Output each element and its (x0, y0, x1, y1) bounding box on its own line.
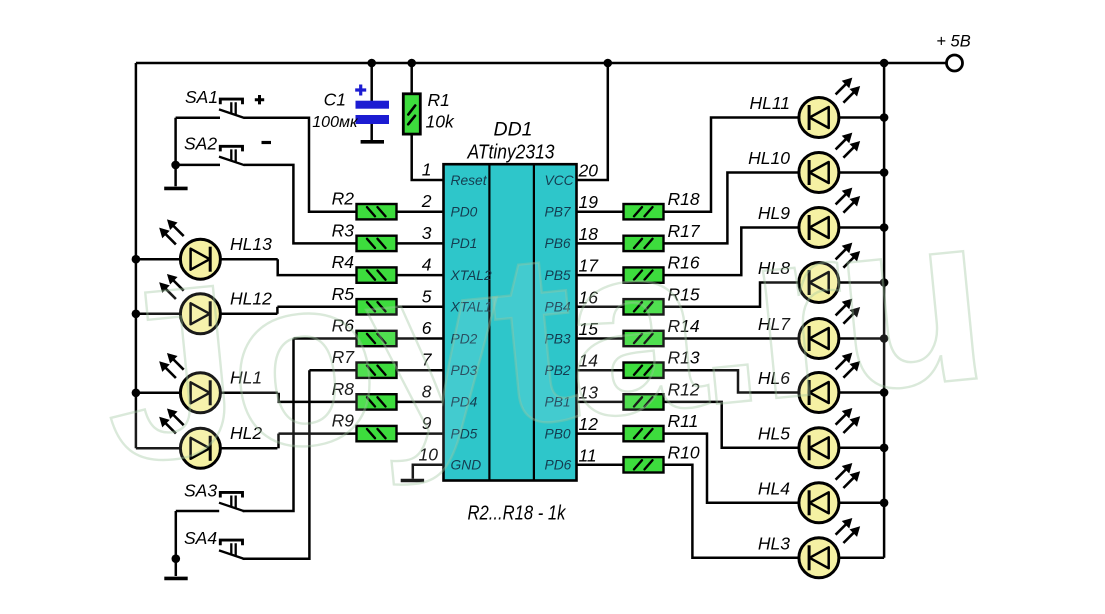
push button SA4 (219, 540, 245, 559)
wire SA1 left (176, 116, 220, 119)
svg-text:Joyta.ru: Joyta.ru (90, 160, 997, 515)
wire SA3 left (176, 510, 219, 513)
+5V terminal (947, 55, 963, 71)
wire HL12 to R5 (276, 307, 279, 314)
junction left rail (132, 310, 141, 319)
wire SA3 to R6 row (243, 339, 294, 512)
wire pin 11 stub (577, 464, 624, 467)
wire pin 15 stub (577, 337, 624, 340)
wire R1 to pin1 (412, 134, 444, 180)
wire rail to HL13 (136, 258, 181, 261)
wire pin 16 stub (577, 306, 624, 309)
junction left rail (132, 389, 141, 398)
resistor R1 (403, 94, 420, 134)
svg-text:1: 1 (422, 160, 432, 180)
junction left rail (132, 255, 141, 264)
svg-text:HL10: HL10 (748, 148, 790, 168)
resistor R15 (624, 299, 664, 314)
wire SA1-SA2 ground stem (174, 118, 177, 187)
wire HL3 to rail (839, 557, 884, 560)
svg-text:HL11: HL11 (749, 93, 790, 113)
wire R5 left (277, 306, 356, 309)
wire right +5V rail (883, 63, 886, 558)
wire HL5 to rail (839, 447, 884, 450)
junction SA2/ground stem (171, 161, 180, 170)
junction rail HL9 (880, 223, 889, 232)
resistor R6 (357, 331, 397, 346)
wire R1 top (410, 63, 413, 94)
resistor R10 (624, 457, 664, 472)
wire HL12 cathode (220, 313, 277, 316)
wire HL10 to rail (839, 171, 884, 174)
wire to HL9 (663, 228, 799, 276)
LED HL1 (160, 354, 221, 413)
wire pin 14 stub (577, 369, 624, 372)
wire SA2 to R3 (244, 165, 357, 244)
wire pin 19 stub (577, 210, 624, 213)
junction pin20/top (604, 59, 613, 68)
resistor R2 (357, 204, 397, 219)
wire HL6 to rail (839, 391, 884, 394)
LED HL10 (799, 133, 860, 192)
junction rail HL4 (880, 499, 889, 508)
wire rail to HL12 (136, 313, 181, 316)
resistor R5 (357, 299, 397, 314)
wire to HL4 (663, 434, 799, 503)
resistor R17 (624, 236, 664, 251)
svg-text:C1: C1 (324, 90, 346, 110)
wire to HL10 (663, 173, 799, 244)
LED HL2 (160, 409, 221, 468)
resistor R18 (624, 204, 664, 219)
LED HL8 (799, 243, 860, 302)
junction C1/top (367, 59, 376, 68)
wire SA3-SA4 ground stem (175, 511, 178, 576)
wire SA1 to R2 (244, 118, 357, 212)
junction rail HL11 (880, 113, 889, 122)
svg-text:SA1: SA1 (185, 87, 218, 107)
resistor R12 (624, 394, 664, 409)
wire HL4 to rail (839, 502, 884, 505)
wire HL13 cathode (220, 258, 277, 261)
wire R5 to pin 5 (397, 306, 444, 309)
LED HL4 (799, 464, 860, 523)
wire C1 top (370, 63, 373, 101)
wire pin 18 stub (577, 242, 624, 245)
junction right rail/top (880, 59, 889, 68)
wire R8 to pin 8 (397, 401, 444, 404)
wire R7 left (309, 369, 356, 372)
wire HL8 to rail (839, 281, 884, 284)
wire R9 left (279, 432, 357, 435)
wire pin 13 stub (577, 401, 624, 404)
resistor R11 (624, 426, 664, 441)
plus sign SA1 (255, 95, 264, 104)
resistor R3 (357, 236, 397, 251)
wire to HL6 (663, 370, 799, 392)
svg-text:SA4: SA4 (184, 528, 217, 548)
wire HL2 cathode (220, 447, 277, 450)
wire to HL11 (663, 118, 799, 212)
junction rail HL6 (880, 388, 889, 397)
push button SA2 (219, 146, 245, 165)
wire HL11 to rail (839, 116, 884, 119)
LED HL9 (799, 188, 860, 247)
junction SA4/ground stem (172, 554, 181, 563)
wire HL9 to rail (839, 226, 884, 229)
wire to HL8 (663, 283, 799, 307)
svg-text:R2...R18 - 1k: R2...R18 - 1k (468, 502, 567, 525)
svg-text:2: 2 (421, 191, 432, 211)
svg-text:R1: R1 (428, 90, 450, 110)
wire R7 to pin 7 (397, 369, 444, 372)
LED HL11 (799, 78, 860, 137)
wire R3 to pin 3 (397, 242, 444, 245)
wire HL13 to R4 (278, 259, 357, 275)
wire to HL3 (663, 465, 799, 558)
wire pin 12 stub (577, 432, 624, 435)
wire SA2 left (176, 164, 220, 167)
svg-text:10k: 10k (426, 112, 455, 132)
minus sign SA2 (262, 141, 272, 144)
svg-text:R2: R2 (332, 189, 355, 209)
wire pin 17 stub (577, 274, 624, 277)
wire R2 to pin 2 (397, 210, 444, 213)
push button SA1 (219, 99, 245, 118)
wire HL1 cathode (220, 392, 277, 395)
svg-text:20: 20 (578, 161, 599, 181)
LED HL5 (799, 409, 860, 468)
ground C1 (361, 140, 384, 144)
LED HL7 (799, 299, 860, 358)
svg-text:ATtiny2313: ATtiny2313 (467, 142, 555, 164)
resistor R8 (357, 394, 397, 409)
ground SA3-SA4 (164, 577, 187, 581)
LED HL12 (160, 275, 221, 334)
resistor R14 (624, 331, 664, 346)
wire C1 bottom (370, 124, 373, 140)
wire R6 left (294, 337, 357, 340)
resistor R9 (357, 426, 397, 441)
junction R1/top (407, 59, 416, 68)
wire rail to HL1 (136, 392, 181, 395)
wire rail to HL2 (136, 447, 181, 450)
junction rail HL5 (880, 444, 889, 453)
wire +5V top rail (136, 62, 946, 65)
svg-text:DD1: DD1 (493, 119, 532, 141)
junction rail HL8 (880, 278, 889, 287)
ground SA1-SA2 (164, 187, 187, 191)
LED HL6 (799, 353, 860, 412)
LED HL13 (160, 220, 221, 279)
resistor R7 (357, 363, 397, 378)
svg-text:Reset: Reset (451, 173, 488, 188)
wire to HL5 (663, 402, 799, 448)
wire R14 to HL7 (663, 337, 799, 340)
LED HL3 (799, 519, 860, 578)
svg-text:VCC: VCC (545, 173, 575, 188)
wire R9 to pin 9 (397, 432, 444, 435)
wire R6 to pin 6 (397, 337, 444, 340)
push button SA3 (219, 492, 245, 511)
wire SA4 to R7 row (243, 370, 310, 559)
junction rail HL7 (880, 334, 889, 343)
svg-text:100мк: 100мк (312, 114, 359, 131)
wire left +5V rail (135, 63, 138, 448)
ground pin10 (401, 479, 424, 483)
svg-text:+ 5В: + 5В (936, 33, 970, 51)
wire HL7 to rail (839, 337, 884, 340)
wire pin20 to +5V (577, 63, 608, 180)
capacitor C1 (355, 85, 389, 125)
svg-text:SA2: SA2 (184, 134, 217, 154)
IC DD1 ATtiny2313 body (444, 164, 577, 480)
wire HL1 to R8 (279, 393, 357, 402)
wire HL2 to R9 (277, 434, 280, 449)
resistor R13 (624, 363, 664, 378)
junction rail HL10 (880, 168, 889, 177)
svg-text:HL3: HL3 (758, 534, 790, 554)
wire pin10 GND (413, 465, 444, 479)
resistor R4 (357, 267, 397, 282)
resistor R16 (624, 267, 664, 282)
wire R4 to pin 4 (397, 274, 444, 277)
svg-text:HL4: HL4 (758, 479, 790, 499)
